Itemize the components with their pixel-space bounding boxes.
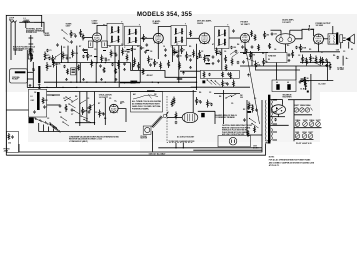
svg-text:C31: C31 [274,34,277,36]
resistor R14 [148,56,150,64]
transformer core bar T4 [336,32,338,44]
phono pickup box [10,69,28,83]
svg-text:AC OUTLET SOCKET: AC OUTLET SOCKET [177,135,195,138]
interlock plug P1 [218,136,250,147]
resistor R29 [222,80,224,88]
capacitor C21 [246,49,248,50]
svg-text:12AT7: 12AT7 [316,119,321,122]
resistor R33 [315,56,317,64]
wire vertical x79.8 [79,92,81,127]
filament string row 0 [294,108,298,112]
resistor R73 [190,30,192,37]
resistor R89 [115,68,117,74]
capacitor C63 [165,48,167,49]
svg-text:R4: R4 [219,95,221,98]
wire vert x61.5 [61,46,63,63]
switch S13 [55,56,56,57]
svg-text:.5M: .5M [266,35,269,37]
resistor R84 [254,34,256,41]
wire motor lead [152,131,154,152]
wire T1b bottom drop [132,46,134,70]
tube V6 power output 50B5 [314,34,324,44]
filament string row 2 [295,134,300,139]
svg-text:C5: C5 [109,98,111,100]
svg-text:C2: C2 [298,55,300,57]
svg-text:R8: R8 [104,118,106,120]
capacitor C10 [131,48,133,49]
ground G7 [248,74,250,75]
resistor R67 [292,50,294,58]
label tl ant [177,78,182,79]
capacitor C71 [71,108,73,109]
wire vertical x94.5 [94,92,96,126]
svg-text:47: 47 [212,43,214,46]
svg-text:B+ 105V: B+ 105V [319,84,327,86]
ground G2 [66,78,68,79]
svg-text:L3: L3 [31,96,33,98]
capacitor C7 [83,55,85,56]
wire AC line 2 [193,149,262,151]
capacitor C81 [150,63,152,64]
resistor R42 [207,100,209,108]
capacitor C31 [271,32,273,33]
capacitor C12 [145,50,147,51]
value blob 3 [103,50,106,51]
value blob 4 [127,49,130,50]
wire vertical V1 cathode [96,42,98,63]
svg-text:R7: R7 [98,103,100,105]
svg-text:MODELS 354, 355: MODELS 354, 355 [137,12,193,18]
wire stub x176 [175,143,177,148]
wire det bottom [191,86,250,88]
wire stub x183 [182,143,184,148]
wire tuner top [33,22,44,33]
value blob 6 [175,52,178,53]
resistor R1 [52,55,54,63]
svg-text:R5: R5 [309,49,311,51]
svg-text:12AT7: 12AT7 [308,131,313,134]
terminal box M1 [71,68,76,75]
capacitor C17 [231,46,233,47]
wire x56 drop [56,66,58,87]
svg-text:1/2 12AT7: 1/2 12AT7 [282,21,290,24]
ground G3 [83,78,85,79]
capacitor C40 [337,56,339,57]
resistor R17 [173,48,175,56]
tube V1 converter 12BE6 [92,33,101,42]
svg-text:S2: S2 [268,59,270,61]
switch contacts S8 [60,116,61,117]
resistor R83 [230,72,232,79]
wire vertical x196.5 [196,44,198,90]
svg-text:C4: C4 [274,48,276,51]
resistor R70 [65,104,67,112]
value blob 8 [243,53,246,54]
wire V5 cathode [285,44,287,53]
capacitor C18 [235,50,237,51]
svg-text:R4: R4 [59,111,61,114]
label loop jumper [130,81,137,82]
wire right corner [310,74,312,100]
svg-text:PILOT LIGHT 6.3V: PILOT LIGHT 6.3V [296,143,313,145]
svg-text:R3: R3 [287,45,289,47]
svg-text:10M: 10M [188,56,192,58]
wire vert x140 [139,46,141,83]
svg-text:C9: C9 [231,103,233,105]
svg-text:12BA6: 12BA6 [153,22,160,25]
capacitor C42 [304,77,306,78]
resistor R65 [225,55,227,63]
dark cap C28 [248,111,252,113]
wire speaker drop 1 [340,43,342,49]
svg-text:NOTE:: NOTE: [269,156,275,158]
resistor R3 [46,62,48,71]
power switch S10 [225,97,226,98]
wire IF cathode bus [27,86,196,88]
svg-text:270: 270 [306,81,309,83]
svg-text:TWIN LEAD: TWIN LEAD [13,49,23,52]
svg-text:22: 22 [109,46,111,48]
capacitor C80 [133,64,135,65]
resistor R64 [199,50,201,58]
wire vert x119 [118,46,120,88]
note box dial [131,92,163,113]
resistor R20 volume [255,61,257,70]
svg-text:TO RECORD CHANGER MOTOR: TO RECORD CHANGER MOTOR [169,140,196,143]
wire antenna to mixer [25,22,27,28]
svg-text:12BE6: 12BE6 [92,23,99,25]
switch arrows [230,50,237,55]
wire x343 drop [342,56,344,66]
value blob 7 [216,53,219,54]
capacitor C73 [233,29,235,30]
svg-text:35W4: 35W4 [302,131,306,134]
capacitor C19 [227,82,229,83]
ground G11 [165,54,167,55]
svg-text:R8: R8 [262,53,264,55]
resistor R25 [186,52,188,61]
svg-text:C6: C6 [224,51,226,53]
capacitor C55 [275,118,277,119]
resistor R45 [304,77,306,85]
ground G6 [183,72,185,73]
wire filament bus 1 [294,127,322,129]
resistor R24 [300,44,302,52]
capacitor C14 [197,56,199,57]
resistor R26 [193,50,195,58]
capacitor C84 [64,65,66,66]
svg-text:300: 300 [240,97,243,99]
capacitor C15 [208,58,210,59]
label on line [147,90,155,92]
svg-text:C2: C2 [47,118,49,120]
resistor R16 [160,62,162,70]
T5 secondary winding upper [270,100,273,124]
IF transformer T3 [215,27,230,49]
wire b+ rail lower [300,65,328,67]
resistor R75 [44,52,46,60]
svg-text:C2: C2 [209,92,211,94]
capacitor C72 [146,43,148,44]
wire T2 to V3 [187,37,200,39]
capacitor C75 [32,68,34,69]
power transformer T5 core [268,95,270,144]
wire V2 cathode [157,43,159,59]
junction dots mid [96,62,97,63]
ground G8 [190,66,192,67]
resistor R27 [204,55,206,63]
wire tone drop [276,63,278,81]
resistor R33b [320,57,322,65]
resistor R18 [179,62,181,70]
switch fan S6 [49,122,50,123]
capacitor C67 [251,45,253,46]
capacitor C87 [175,121,177,122]
switch fan extra [65,96,66,97]
resistor R11 [122,48,124,56]
resistor R71 [89,104,91,111]
capacitor C69 [326,58,328,59]
svg-text:C4: C4 [34,91,36,94]
capacitor C79 [237,61,239,62]
svg-text:C7: C7 [321,52,323,54]
resistor R7 [91,60,93,68]
wire loop down 1 [10,28,12,61]
wire V5 to V6 grid [295,29,308,39]
terminal strip box lower left [7,132,19,153]
svg-text:INTERLOCK PLUG MUST BE IN: INTERLOCK PLUG MUST BE IN [222,130,247,132]
wire V4 cathode [244,43,246,53]
svg-text:R1: R1 [351,49,353,51]
svg-text:TONE SW: TONE SW [268,56,276,58]
capacitor C66 [243,60,245,61]
tuning gang link [151,116,163,128]
resistor R60 [70,30,72,38]
value blob 2 [94,56,98,57]
wire AVC bus [52,62,131,64]
electrolytic C50 [276,84,279,90]
wire det out [180,70,200,72]
svg-text:C6: C6 [63,98,65,100]
trimmer box right of V1 [102,41,108,48]
wire audio lower bus [240,65,300,67]
dark square jumper [307,91,309,93]
tuner trimmer [28,54,32,59]
wire V6 plate to T4 [324,38,329,40]
svg-text:MOTOR: MOTOR [141,138,148,140]
capacitor C60 [57,43,59,44]
svg-text:R8: R8 [75,96,77,98]
svg-text:C9: C9 [121,44,123,46]
capacitor C25 [200,100,202,101]
resistor R15 [154,59,156,67]
svg-text:10: 10 [163,46,165,48]
wire rect bottom [270,124,288,126]
wire loop down 2 [14,28,16,56]
wire filament feed [293,100,295,141]
svg-text:AND CONNECT JUMPER AS SHOWN BY: AND CONNECT JUMPER AS SHOWN BY DASHED LI… [269,161,315,164]
svg-text:12BE6: 12BE6 [300,105,305,107]
svg-text:C7: C7 [176,44,178,46]
svg-text:C5: C5 [94,49,96,51]
tube V4 FM detector 12AT7 [240,33,249,42]
svg-text:12AT7: 12AT7 [66,25,71,28]
wire T1b to V2 [141,37,154,39]
svg-text:47: 47 [145,37,147,40]
oscillator coil box [29,89,47,117]
selenium rectifier CR1 [272,105,286,114]
svg-text:R2: R2 [137,46,139,48]
osc coil L3 [37,92,40,110]
ground G13 [288,59,290,60]
svg-text:12AT6: 12AT6 [303,119,308,122]
junction dots y82 more [70,82,71,83]
filament string row 1 [295,122,300,127]
resistor R78 [247,130,249,137]
wire AC line 3 [19,148,262,152]
IF transformer T1 [107,23,123,45]
phono motor M2 [143,126,151,134]
resistor R32 [310,54,312,63]
wire audio b+ [289,30,291,34]
svg-text:R6: R6 [333,55,335,57]
resistor R44 [254,126,256,133]
wire x262 drop [261,100,263,148]
capacitor C82 [218,59,220,60]
svg-text:TO PIN 3: TO PIN 3 [337,67,344,69]
coil L2 osc [38,66,40,83]
capacitor C1 [47,49,49,50]
resistor R10 [118,60,120,69]
capacitor C64 [190,58,192,59]
svg-text:470: 470 [46,54,49,57]
wire vertical x80.3 [79,63,81,83]
resistor R2 [29,48,31,56]
svg-text:JACK: JACK [4,150,9,153]
svg-text:2.2M: 2.2M [74,53,78,55]
resistor R87 [78,65,80,71]
wire hline y122.7 [75,122,95,124]
svg-text:OF 50B5: OF 50B5 [337,69,343,71]
wire vert x68 [67,46,69,63]
svg-text:C1: C1 [49,50,51,52]
svg-text:SCREW LUG: SCREW LUG [26,32,37,34]
ground G10 [124,68,126,69]
value blob 1 [84,50,88,51]
svg-text:C8: C8 [150,51,152,53]
svg-text:R4: R4 [237,43,239,46]
resistor R80 [231,58,233,66]
svg-text:FOR AC-DC OPERATION REMOVE POW: FOR AC-DC OPERATION REMOVE POWER TRANS [269,159,311,162]
capacitor C23 [88,110,90,111]
svg-text:40: 40 [276,81,278,84]
dark contact block [202,80,205,83]
tuner box outline [6,15,41,155]
ratio det box [200,70,239,78]
switch S3 [314,62,315,63]
svg-text:47: 47 [183,49,185,52]
svg-text:B+: B+ [115,101,117,103]
resistor R8 [101,55,103,63]
wire b+ rail top [300,51,340,53]
svg-text:330: 330 [233,47,236,49]
wire AC line 1 [158,147,262,149]
wire osc box out2 [47,104,60,106]
wire T4 top feed [332,26,334,34]
wire osc box out1 [47,94,60,96]
resistor R79 [252,105,254,113]
capacitor C68 [288,53,290,54]
wire AC line 4 [6,144,265,156]
resistor R66 [258,44,260,51]
svg-text:470K: 470K [302,47,307,50]
resistor R21 [263,58,265,66]
wire b- rail [300,80,333,82]
band switch wafer [29,117,34,123]
wire T1 bottom drop [114,46,116,83]
ground G14 [38,84,40,85]
capacitor C16 [220,52,222,53]
voice coil rect [340,35,343,43]
wire T5 taps [273,99,278,101]
capacitor C65 [212,55,214,56]
capacitor C9 [115,53,117,54]
svg-text:C7: C7 [71,114,73,116]
resistor R4 [62,52,64,60]
switch contacts S7 [64,100,65,101]
resistor R19 [181,46,183,54]
svg-text:.01: .01 [108,60,111,62]
capacitor C26 [211,103,213,104]
svg-text:12AT7: 12AT7 [294,104,299,107]
svg-text:R2: R2 [243,109,245,111]
switch S11 [249,118,250,119]
switch S4 [246,58,247,59]
wire right bus [300,61,330,63]
switch fan S5 [34,117,35,118]
svg-text:C3: C3 [95,112,97,114]
wire T2 bottom drop [178,46,180,83]
svg-text:R9: R9 [35,119,37,121]
resistor R92 [171,100,173,107]
capacitor C77 [244,118,246,119]
resistor R36 [233,80,235,88]
wire left hook [18,144,20,152]
capacitor C13 [177,54,179,55]
svg-text:PICKUP: PICKUP [12,79,19,81]
svg-text:12AT6: 12AT6 [197,22,204,25]
resistor R12 [126,54,128,62]
resistor R37 [250,51,252,59]
ballast tube V9 35W4 [182,112,198,122]
wire T3 to V4 [229,37,240,39]
dial cord curve [133,95,158,99]
svg-text:B- BUS: B- BUS [301,89,308,91]
bottom cluster right [301,79,304,80]
wire choke drop [295,66,297,80]
wire audio bus [271,29,282,31]
T5 primary winding [264,100,267,140]
resistor R22 [264,31,266,39]
resistor R41 [196,97,198,105]
svg-text:50B5: 50B5 [295,132,299,134]
wire T3 bottom drop [221,49,223,71]
svg-text:C1: C1 [249,56,251,58]
svg-text:R6: R6 [199,92,201,94]
capacitor C11 [141,46,143,47]
svg-text:RECTIFIER: RECTIFIER [283,96,293,98]
junction dots osc [79,122,80,123]
